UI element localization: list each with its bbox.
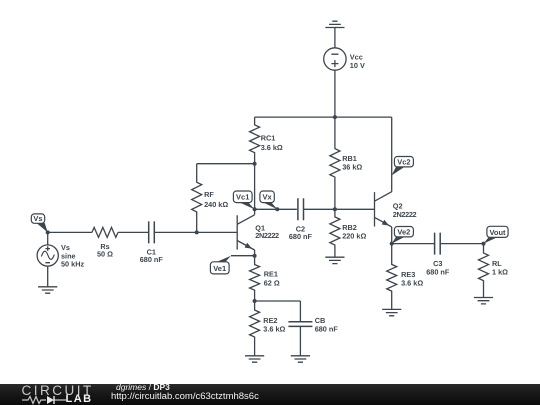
logo LAB text [66,393,93,405]
wire Ve1 stub [231,255,255,257]
svg-text:680 nF: 680 nF [426,267,450,276]
flag box Ve2 [394,227,413,237]
node dot Vc1 [253,207,257,211]
svg-text:Vout: Vout [489,228,506,237]
svg-text:RE1: RE1 [264,269,278,278]
flag box Ve1 [210,262,229,274]
arrow Q2 emitter [382,220,389,226]
wire RC1 to Vc1 node [254,164,256,210]
svg-text:680 nF: 680 nF [289,232,313,241]
pointer Vc1 flag [240,203,255,210]
svg-text:Vx: Vx [263,193,273,202]
wire top rail [255,116,392,118]
voltage source Vcc [324,48,346,70]
resistor RE2 [250,301,260,356]
resistor RC1 [250,117,260,164]
wire RF top to RC1 [197,163,255,165]
flag box Vc2 [394,157,413,167]
svg-text:3.6 kΩ: 3.6 kΩ [401,278,423,287]
svg-text:2N2222: 2N2222 [255,231,279,240]
pointer Vc2 flag [392,167,405,176]
svg-text:1 kΩ: 1 kΩ [492,267,508,276]
svg-text:10 V: 10 V [350,61,365,70]
svg-text:680 nF: 680 nF [315,325,339,334]
svg-text:RF: RF [204,190,214,199]
wire RE1 junction to CB [255,300,301,302]
svg-text:50 Ω: 50 Ω [97,250,113,259]
svg-text:2N2222: 2N2222 [393,210,417,219]
node dot RE1 RE2 CB [253,299,257,303]
ground (below RE3) [382,309,401,315]
svg-text:3.6 kΩ: 3.6 kΩ [261,143,283,152]
pointer Vout flag [484,237,498,243]
pointer Vx flag [264,203,278,210]
resistor Rs [92,227,118,237]
flag box Vc1 [233,191,252,203]
capacitor CB [299,301,301,356]
flag box Vout [487,226,508,237]
wire Vcc column [334,28,336,118]
flag box Vs [31,214,44,223]
transistor Q2 [375,117,392,244]
ground (below Vs) [38,287,57,293]
node dot Vx [275,207,279,211]
wire Vs vertical [47,232,49,286]
svg-text:Ve2: Ve2 [397,228,410,237]
svg-text:Ve1: Ve1 [213,264,226,273]
ground (below RE2) [245,356,264,362]
pointer Ve1 flag [217,256,231,262]
resistor RF [192,164,202,233]
logo waveform [22,395,68,405]
url line [111,391,259,402]
node dot RF top [253,162,257,166]
pointer Ve2 flag [392,237,405,244]
node dot Ve2 [390,242,394,246]
capacitor C3 [435,233,441,255]
svg-text:62 Ω: 62 Ω [264,278,280,287]
resistor RE3 [387,244,397,310]
logo CIRCUIT text [22,383,94,398]
node dot RF bottom [195,230,199,234]
flag box Vx [260,191,274,203]
watermark bar [0,384,540,405]
svg-text:240 kΩ: 240 kΩ [204,200,228,209]
ground (below RB2) [325,257,344,263]
capacitor C1 [149,221,155,243]
node dot Vout [482,242,486,246]
node dot Vs top [46,230,50,234]
svg-text:Vcc: Vcc [350,52,363,61]
ground (below CB) [291,356,310,362]
wire Q2 emitter rail [392,243,484,245]
voltage source Vs [37,245,58,266]
svg-text:50 kHz: 50 kHz [61,260,84,269]
resistor RB1 [330,117,340,209]
node dot RB junction [333,207,337,211]
svg-text:220 kΩ: 220 kΩ [342,232,366,241]
node dot Ve1 [253,254,257,258]
ground (below RL) [474,298,493,304]
resistor RB2 [330,209,340,257]
svg-text:36 kΩ: 36 kΩ [342,163,362,172]
resistor RE1 [250,256,260,301]
svg-text:Vs: Vs [33,214,42,223]
capacitor C2 [298,198,304,220]
resistor RL [479,244,489,298]
svg-text:RC1: RC1 [261,133,276,142]
svg-text:680 nF: 680 nF [140,255,164,264]
wire Q1 collector to C2 [255,208,297,210]
arrow Q1 emitter [245,243,252,249]
wire main left horizontal (Vs to Q1 base) [48,231,237,233]
pointer Vs flag [37,223,48,232]
svg-text:Vc2: Vc2 [397,158,410,167]
svg-text:3.6 kΩ: 3.6 kΩ [263,325,285,334]
wire C2 to Q2 base [304,208,375,210]
transistor Q1 [237,209,254,255]
credit line [116,382,170,392]
svg-text:Vc1: Vc1 [236,193,249,202]
node dot Vcc rail [333,115,337,119]
ground (above Vcc, inverted) [325,21,344,27]
